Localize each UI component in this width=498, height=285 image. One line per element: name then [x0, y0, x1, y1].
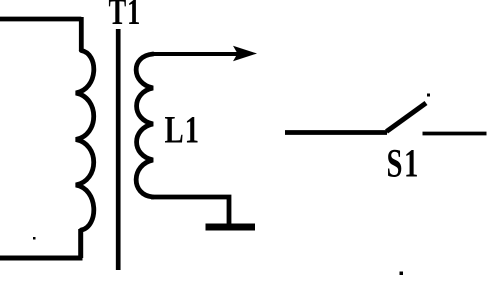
transformer T1 primary winding [76, 51, 94, 231]
wire: secondary top lead (arrow shaft) [151, 52, 240, 56]
inductor L1 secondary winding [136, 54, 153, 197]
switch S1 arm (blade) [387, 103, 427, 132]
switch S1 right terminal wire [423, 132, 487, 136]
wire: primary top lead [0, 17, 81, 22]
transformer T1 core [116, 29, 121, 270]
ink speck bottom-right [400, 272, 404, 276]
ground [206, 224, 256, 231]
arrowhead of output arrow [233, 46, 257, 61]
switch S1 left terminal wire [285, 130, 387, 135]
wire: secondary bottom lead [151, 197, 229, 224]
wire: primary top vertical drop [79, 17, 84, 51]
wire: primary bottom vertical drop [78, 229, 83, 258]
wire: primary bottom lead [0, 256, 83, 261]
svg-text:T1: T1 [109, 0, 142, 32]
svg-text:S1: S1 [387, 141, 420, 186]
svg-text:L1: L1 [165, 108, 200, 151]
switch S1 arm tip speck [427, 94, 430, 97]
ink speck bottom-left [33, 237, 36, 240]
